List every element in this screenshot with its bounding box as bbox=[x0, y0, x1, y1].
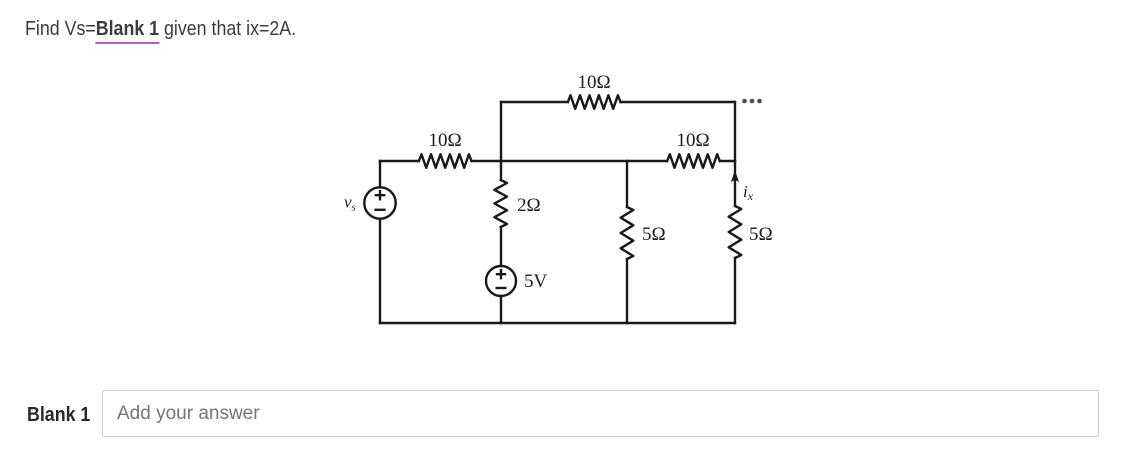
svg-text:5V: 5V bbox=[524, 271, 548, 292]
wire: mid rail center segment bbox=[472, 160, 668, 162]
svg-text:10Ω: 10Ω bbox=[428, 130, 461, 151]
vs minus sign bbox=[376, 209, 385, 211]
wire: right vertical lower bbox=[734, 258, 736, 323]
resistor R=10ohm (right, horizontal) bbox=[667, 154, 720, 168]
wire: 2ohm branch upper stub bbox=[500, 161, 502, 180]
svg-text:10Ω: 10Ω bbox=[577, 72, 610, 93]
wire: middle branch upper bbox=[626, 161, 628, 207]
wire: right vertical (mid rail to 5ohm) bbox=[734, 161, 736, 206]
wire: left vertical top (vs to mid rail) bbox=[379, 161, 381, 187]
svg-text:10Ω: 10Ω bbox=[676, 130, 709, 151]
svg-text:2Ω: 2Ω bbox=[517, 195, 541, 216]
wire: mid rail right stub bbox=[720, 160, 735, 162]
svg-text:ix: ix bbox=[743, 182, 754, 203]
wire: bottom rail bbox=[380, 322, 735, 324]
wire: top branch right horizontal bbox=[621, 101, 736, 103]
wire: top branch left horizontal bbox=[501, 101, 568, 103]
svg-text:5Ω: 5Ω bbox=[749, 224, 773, 245]
vs plus sign bbox=[376, 191, 384, 199]
resistor R=10ohm (top, horizontal) bbox=[568, 95, 621, 109]
answer row label bbox=[27, 404, 90, 427]
voltage source 5V (circle) bbox=[486, 266, 516, 296]
answer input bbox=[102, 390, 1099, 437]
voltage source vs (circle) bbox=[364, 187, 395, 218]
svg-text:vs: vs bbox=[344, 193, 356, 214]
wire: right vertical upper (top branch to mid rail) bbox=[734, 102, 736, 161]
ellipsis dots bbox=[742, 99, 762, 104]
resistor R=10ohm (left, horizontal) bbox=[419, 154, 472, 168]
wire: 2ohm to 5V source bbox=[500, 227, 502, 266]
wire: middle branch lower bbox=[626, 259, 628, 323]
5V plus sign bbox=[497, 270, 505, 278]
5V minus sign bbox=[497, 287, 506, 289]
current arrow ix (head) bbox=[731, 170, 739, 182]
wire: mid rail left segment bbox=[380, 160, 419, 162]
wire: left vertical bottom (vs to bottom rail) bbox=[379, 219, 381, 323]
resistor R=5ohm (right, vertical) bbox=[729, 206, 742, 258]
question heading bbox=[25, 18, 296, 41]
wire: 5V source to bottom rail bbox=[500, 296, 502, 323]
resistor R=5ohm (middle, vertical) bbox=[621, 207, 634, 259]
wire: top branch left vertical bbox=[500, 102, 502, 161]
svg-text:5Ω: 5Ω bbox=[642, 224, 666, 245]
resistor R=2ohm (vertical) bbox=[494, 180, 507, 227]
